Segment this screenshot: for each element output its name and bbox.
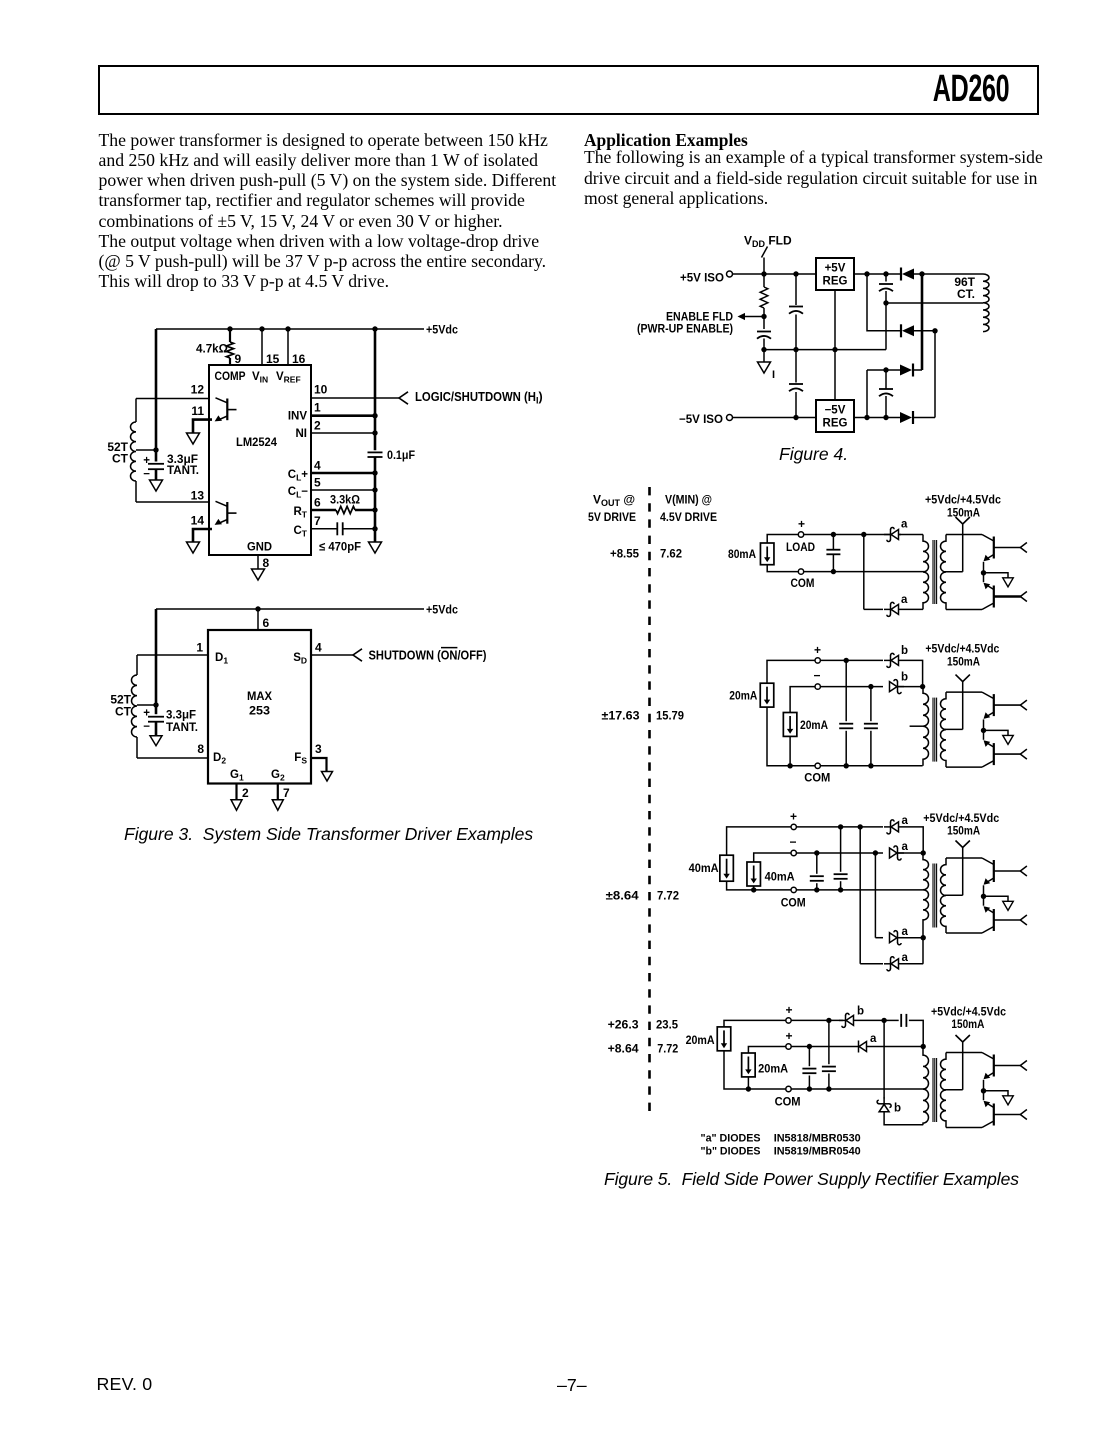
field connection arrow lower (circuit 5) (1020, 749, 1027, 759)
wire Q5a emitter to base node (983, 719, 985, 730)
diode D6 'a' (c1 lower) (884, 602, 899, 616)
ground at pin 8 (252, 569, 265, 580)
wire pin 5 CL- (311, 489, 375, 491)
wire center tap to C1 (155, 450, 158, 462)
wire T2 center tap (137, 704, 156, 706)
wire T1 primary top lead (135, 399, 137, 423)
junction c2 COM/source2 (787, 763, 792, 768)
diode D2 (rectifier) (901, 324, 914, 337)
svg-text:−5V ISO: −5V ISO (679, 412, 723, 426)
wire c4 row2 (791, 1046, 858, 1048)
svg-text:+5Vdc/+4.5Vdc: +5Vdc/+4.5Vdc (925, 493, 1001, 507)
ground at pin 11 (187, 433, 200, 444)
wire D10 to T6 top (898, 852, 924, 854)
transistor Q4a (upper sync rectifier) (982, 535, 1021, 562)
wire pin 2 G1 to ground (235, 784, 237, 800)
field connection arrow upper (circuit 5) (1020, 700, 1027, 710)
capacitor C17 (c4) (802, 1069, 816, 1074)
svg-text:7: 7 (314, 514, 321, 528)
wire C10 bottom lead (832, 554, 834, 571)
wire C13 branch (840, 827, 842, 872)
svg-text:CT: CT (112, 452, 129, 466)
ground at base node (circuit 5) (1003, 735, 1014, 744)
capacitor C10 (c1 filter) (826, 550, 840, 555)
junction c1 top/diode branch (861, 532, 866, 537)
junction rail/pin16 (285, 326, 290, 331)
svg-text:+5Vdc/+4.5Vdc: +5Vdc/+4.5Vdc (925, 642, 999, 656)
terminal COM (c2) (815, 763, 820, 768)
header part number AD260 (905, 68, 1037, 111)
wire D15 to bottom row (884, 1112, 923, 1125)
wire power arrow stem (circuit 7) (962, 1042, 964, 1090)
junction enable node (761, 314, 766, 319)
inductor T5 secondary winding (940, 692, 946, 767)
header rule box (98, 65, 1039, 115)
junction c2 COM/C11 (844, 763, 849, 768)
field connection arrow lower (circuit 7) (1020, 1110, 1027, 1120)
svg-text:LOAD: LOAD (786, 540, 815, 554)
junction c3 row2/C14 (814, 850, 819, 855)
field connection arrow upper (circuit 7) (1020, 1061, 1027, 1071)
wire c3 row4 (860, 963, 883, 965)
caption Figure 4 (779, 444, 848, 465)
svg-text:NI: NI (296, 428, 308, 440)
wire GND pin 8 (257, 555, 259, 569)
current source 40mA (c3 lower) (747, 862, 761, 886)
wire pin 1 INV to bypass node (311, 414, 375, 417)
svg-text:1: 1 (196, 641, 203, 655)
wire fig4 common rail (764, 349, 886, 351)
wire pin 6 RT left (311, 509, 336, 512)
wire pin 11 stub to ground (193, 420, 212, 433)
wire D5 to T4 primary (899, 534, 924, 536)
wire c2 source2 top to - terminal (790, 687, 815, 713)
svg-text:a: a (902, 926, 909, 938)
svg-text:253: 253 (249, 704, 270, 718)
wire D9 to corner (899, 827, 924, 853)
terminal + 8.64V (c4) (786, 1044, 791, 1049)
svg-text:CL−: CL− (288, 486, 309, 500)
svg-text:7.72: 7.72 (657, 1042, 678, 1056)
wire c3 source1 top to + terminal (727, 827, 791, 855)
wire T2 primary top lead (136, 655, 138, 675)
svg-text:+: + (143, 708, 150, 720)
junction c3 row2/branch (873, 850, 878, 855)
wire +5V ISO to +5V REG (733, 273, 817, 275)
svg-text:20mA: 20mA (686, 1033, 715, 1047)
transistor Q4b (lower sync rectifier) (982, 583, 1021, 610)
transistor Q5a (upper sync rectifier) (982, 692, 1021, 719)
wire x886 cap branch (885, 274, 887, 282)
wire C8 to center tap node (885, 291, 887, 303)
terminal +5V ISO (727, 271, 733, 277)
junction c1 top/C10 (831, 532, 836, 537)
wire c3 row3 (875, 937, 883, 939)
svg-text:150mA: 150mA (947, 506, 980, 520)
terminal -5V ISO (727, 415, 733, 421)
svg-text:b: b (857, 1005, 864, 1017)
svg-text:−5V: −5V (825, 405, 846, 417)
power arrow +5Vdc/+4.5Vdc output (circuit 7) (956, 1035, 970, 1042)
wire x922 thick vertical (921, 274, 924, 370)
svg-text:COM: COM (775, 1095, 801, 1109)
wire T1 primary bottom lead (135, 481, 137, 502)
junction pin4/vertical (372, 470, 377, 475)
svg-text:"a" DIODES: "a" DIODES (701, 1133, 761, 1145)
wire base node to ground stub (984, 730, 1009, 735)
capacitor C4 3.3uF tantalum (148, 717, 164, 722)
current source 40mA (c3 upper) (720, 855, 734, 881)
svg-text:I: I (772, 369, 775, 381)
wire base node to Q6b emitter (983, 896, 985, 905)
wire C14 branch (816, 853, 818, 874)
right column heading (584, 130, 748, 151)
ground at base node (circuit 6) (1003, 901, 1014, 910)
wire c4 COM row to T7 center tap (791, 1088, 925, 1090)
junction T2 center tap/C4 (153, 702, 158, 707)
wire c3 branch row2 to row3 (874, 853, 876, 938)
wire lower-left x867 vertical (866, 370, 868, 418)
junction x796/common (793, 347, 798, 352)
junction D2/x935 (932, 328, 937, 333)
capacitor C12 (c2) (864, 724, 878, 729)
diode D15 'b' (c4 doubler) (877, 1097, 891, 1112)
wire pin 2 NI to bypass node (311, 432, 375, 434)
wire C9 to -5V rail (885, 396, 887, 418)
svg-text:5: 5 (314, 476, 321, 490)
svg-text:9: 9 (235, 352, 242, 366)
wire D4 to x935 (914, 417, 935, 419)
diode D3 (rectifier, -5V) (900, 364, 913, 377)
wire c1 top row (804, 534, 902, 536)
wire pin 4 CL+ (311, 472, 375, 475)
transistor Q5b (lower sync rectifier) (982, 740, 1021, 767)
wire base node to Q4b emitter (983, 573, 985, 582)
wire T5 primary center tap stub (910, 725, 925, 727)
svg-text:−: − (790, 835, 797, 849)
footer page number (557, 1375, 587, 1396)
svg-text:CL+: CL+ (288, 469, 309, 483)
wire C11 to COM (845, 731, 847, 766)
wire pin 14 stub to ground (193, 529, 212, 542)
field connection arrow upper (circuit 6) (1020, 866, 1027, 876)
wire D8 to T5 primary top (898, 686, 923, 688)
wire T6 lead to row3/row4 (922, 927, 924, 964)
junction center tap/C1 (153, 447, 158, 452)
junction base node (circuit 4) (981, 570, 986, 575)
wire D7 to corner (899, 660, 923, 686)
svg-text:3.3kΩ: 3.3kΩ (330, 493, 360, 507)
wire pin 3 FS to ground (311, 758, 327, 772)
current source 20mA (c2 upper) (760, 683, 774, 707)
capacitor C7 (-5V ISO bypass) (789, 384, 803, 391)
svg-text:4: 4 (314, 459, 321, 473)
capacitor C1 3.3uF tantalum (148, 464, 164, 469)
wire c2 source1 bottom to COM (767, 707, 815, 766)
wire T7 secondary top to Q7a (946, 1052, 982, 1054)
wire pin 7 G2 to ground (277, 784, 279, 800)
signal arrow LOGIC/SHUTDOWN (399, 392, 408, 404)
diode D14 'a' (c4 row2) (859, 1041, 867, 1053)
transistor Q7a (upper sync rectifier) (982, 1053, 1021, 1080)
transistor Q6b (lower sync rectifier) (982, 906, 1021, 933)
signal arrow ENABLE FLD (738, 313, 746, 320)
junction VDD/+5V ISO rail (761, 271, 766, 276)
svg-text:G2: G2 (271, 769, 285, 783)
wire R2 to vertical (355, 509, 375, 512)
junction c3 row1/C13 (838, 824, 843, 829)
junction c4 doubler node (881, 1018, 886, 1023)
wire C16 to corner (909, 1020, 923, 1046)
wire c2 source2 bottom stub (789, 736, 791, 765)
capacitor C8 (+5V filter) (879, 284, 893, 291)
wire C15 branch (828, 1020, 830, 1064)
wire c4 source1 top to + terminal (724, 1020, 786, 1027)
wire common to U4 top (834, 350, 836, 400)
diode D12 'a' (c3 row4) (884, 957, 899, 971)
wire c3 row2 (796, 852, 883, 854)
wire C17 to COM (808, 1076, 810, 1090)
regulator U3 +5V REG (816, 258, 854, 290)
inductor T5 primary winding (923, 687, 929, 766)
wire c2 row2 (820, 686, 883, 688)
junction rail/bypass branch (372, 326, 377, 331)
wire base node to ground stub (984, 1091, 1009, 1096)
wire R1 to pin 9 (229, 358, 231, 365)
transistor Q1 (upper driver inside LM2524) (215, 398, 237, 422)
junction base node (circuit 7) (981, 1088, 986, 1093)
current source 20mA (c4 upper) (717, 1027, 731, 1051)
svg-text:5V DRIVE: 5V DRIVE (588, 510, 636, 524)
inductor T3 secondary winding 96T CT (983, 274, 989, 332)
inductor T7 secondary winding (941, 1053, 946, 1128)
svg-text:CT.: CT. (957, 287, 975, 301)
wire base node to Q7b emitter (983, 1091, 985, 1100)
wire rail to pin 16 (287, 329, 289, 365)
wire rail to pin 15 (261, 329, 263, 365)
svg-text:a: a (870, 1033, 877, 1045)
wire Q7a emitter to base node (983, 1080, 985, 1091)
diode D9 'a' (c3 row1) (884, 820, 899, 834)
wire C15 to COM (828, 1074, 830, 1090)
svg-text:150mA: 150mA (947, 655, 980, 669)
wire C13 to COM (840, 881, 842, 890)
svg-text:4.7kΩ: 4.7kΩ (196, 342, 228, 356)
wire D13 to doubler node (854, 1019, 885, 1021)
wire base node to ground stub (984, 896, 1009, 901)
svg-text:0.1μF: 0.1μF (387, 448, 415, 462)
svg-text:FS: FS (294, 752, 307, 766)
svg-text:+: + (786, 1003, 793, 1017)
wire c1 COM row to center tap (804, 571, 926, 573)
wire +5Vdc supply rail (MAX253) (156, 608, 424, 610)
svg-text:+: + (814, 643, 821, 657)
ground below C4 (150, 736, 162, 746)
junction x886/D3 row (883, 367, 888, 372)
svg-text:11: 11 (191, 404, 204, 418)
wire c4 source2 bottom stub (747, 1077, 749, 1089)
wire T4 secondary center tap (944, 571, 963, 573)
wire c3 row1 (796, 826, 883, 828)
field connection arrow lower (circuit 6) (1020, 915, 1027, 925)
wire R3 to enable node (763, 308, 765, 329)
ground at pin G2 (272, 800, 283, 811)
junction c4 row2/C17 (807, 1044, 812, 1049)
diode D8 'b' (c2 row2) (890, 680, 905, 694)
svg-text:20mA: 20mA (758, 1062, 788, 1076)
wire D11 to T6 vertical (898, 937, 924, 939)
wire x886 lower cap branch (885, 370, 887, 389)
diode D4 (rectifier) (900, 411, 913, 424)
current source 20mA (c2 lower) (783, 713, 797, 737)
IC U1 LM2524 body (209, 365, 311, 555)
wire T6 secondary top to Q6a (946, 857, 982, 859)
current source 20mA (c4 lower) (742, 1053, 756, 1077)
wire c3 source2 bottom stub (753, 886, 755, 890)
junction c4 COM/C17 (807, 1086, 812, 1091)
svg-text:+: + (143, 455, 150, 467)
capacitor C9 (-5V filter) (879, 389, 893, 396)
terminal + (c2) (815, 658, 820, 663)
junction c3 row1/branch (858, 824, 863, 829)
capacitor C15 (c4) (822, 1067, 836, 1072)
wire pin 10 LOGIC/SHUTDOWN (311, 397, 399, 399)
wire base node to Q5b emitter (983, 730, 985, 739)
ground at bypass vertical bottom (369, 542, 382, 553)
signal arrow SHUTDOWN (353, 649, 362, 661)
svg-text:b: b (901, 645, 908, 657)
power arrow +5Vdc/+4.5Vdc output (circuit 4) (956, 517, 970, 524)
wire T7 secondary bottom to Q7b (946, 1127, 982, 1129)
wire -5V ISO to -5V REG (733, 417, 817, 419)
junction pin1/vertical (372, 413, 377, 418)
svg-text:COM: COM (781, 896, 806, 910)
diode D10 'a' (c3 row2) (890, 846, 905, 860)
svg-text:a: a (902, 952, 909, 964)
wire center tap to common (885, 303, 887, 350)
wire rail down to center tap (155, 329, 158, 450)
junction x886/-5V rail (883, 415, 888, 420)
svg-text:+5Vdc: +5Vdc (426, 603, 458, 617)
wire c1 source bottom to COM (767, 565, 798, 572)
svg-text:MAX: MAX (247, 689, 272, 703)
capacitor C16 (doubler series) (901, 1014, 906, 1027)
capacitor C11 (c2) (839, 724, 853, 729)
svg-text:20mA: 20mA (729, 689, 757, 703)
svg-text:3: 3 (315, 742, 322, 756)
wire U3 ground lead (834, 290, 836, 350)
wire pin 4 SD SHUTDOWN (311, 654, 353, 656)
wire T4 secondary bottom to Q4b (946, 609, 982, 611)
wire rail down to T2 center tap (155, 609, 158, 705)
capacitor C14 (c3) (810, 876, 824, 881)
svg-text:13: 13 (191, 489, 205, 503)
junction x922/+5V out (919, 271, 924, 276)
ground at pin G1 (231, 800, 242, 811)
caption Figure 5 (604, 1169, 1019, 1190)
svg-text:LM2524: LM2524 (236, 435, 277, 449)
inductor T7 primary winding (923, 1047, 929, 1125)
terminal - (c3) (791, 850, 796, 855)
transformer T7 core (933, 1058, 937, 1122)
field connection arrow lower (circuit 4) (1020, 592, 1027, 602)
power arrow +5Vdc/+4.5Vdc output (circuit 6) (956, 841, 970, 848)
svg-text:COMP: COMP (215, 371, 246, 383)
left column body text (99, 130, 557, 292)
wire C17 branch (808, 1047, 810, 1067)
wire power arrow stem (circuit 6) (962, 848, 964, 896)
svg-text:VIN: VIN (252, 371, 268, 385)
wire center tap to C4 (155, 705, 158, 714)
junction pin6/vertical (372, 507, 377, 512)
transistor Q2 (lower driver inside LM2524) (215, 501, 237, 525)
svg-text:GND: GND (247, 540, 272, 554)
wire T5 secondary bottom to Q5b (946, 766, 982, 768)
capacitor C6 (+5V ISO bypass) (789, 307, 803, 314)
svg-text:VREF: VREF (276, 371, 301, 385)
junction center tap node (883, 300, 888, 305)
resistor R1 4.7k-ohm (226, 342, 233, 358)
wire pin 12 to transformer T1 primary top (136, 398, 209, 400)
svg-text:CT: CT (293, 525, 307, 539)
svg-text:TANT.: TANT. (166, 720, 198, 734)
svg-text:7.62: 7.62 (660, 547, 682, 561)
svg-text:1: 1 (314, 401, 321, 415)
wire c3 COM row to T6 center tap (796, 889, 925, 891)
overline over ON (441, 647, 457, 649)
wire T1 center tap (136, 449, 156, 451)
wire x935 vertical (934, 331, 936, 418)
caption Figure 3 (124, 824, 533, 845)
svg-text:−: − (143, 468, 150, 480)
svg-text:+5V: +5V (825, 263, 846, 275)
wire c3 source1 bottom to COM (727, 881, 791, 890)
junction rail/R1 (227, 326, 232, 331)
junction base node (circuit 5) (981, 728, 986, 733)
svg-text:TANT.: TANT. (167, 463, 199, 477)
svg-text:12: 12 (191, 383, 205, 397)
svg-text:23.5: 23.5 (656, 1018, 678, 1032)
wire T5 secondary top to Q5a (946, 691, 982, 693)
wire c2 source1 top to + terminal (767, 660, 815, 683)
svg-text:+: + (786, 1029, 793, 1043)
transistor Q6a (upper sync rectifier) (982, 858, 1021, 885)
inductor T1 primary winding 52T CT (131, 422, 137, 481)
junction c4 COM/source2 (746, 1086, 751, 1091)
svg-text:15.79: 15.79 (656, 709, 684, 723)
wire c3 branch row1 to row4 (859, 827, 861, 964)
ground at base node (circuit 4) (1003, 578, 1014, 587)
junction c2 row1/C11 (844, 658, 849, 663)
wire C4 to ground (155, 722, 158, 736)
current source 80mA (760, 543, 774, 565)
wire D2 to x935 (914, 330, 935, 332)
wire T4 secondary top to Q4a (946, 534, 982, 536)
wire T6 secondary center tap (944, 894, 963, 896)
wire c4 source1 bottom to COM (724, 1051, 786, 1089)
wire VDD branch vertical top (763, 258, 765, 288)
diode D11 'a' (c3 row3) (890, 931, 905, 945)
diode D1 (rectifier, +5V) (901, 268, 914, 281)
wire U3 output to diode D1a (854, 273, 901, 275)
wire power arrow stem (circuit 5) (962, 682, 964, 730)
svg-text:a: a (901, 594, 908, 606)
wire T2 primary bottom lead (136, 737, 138, 758)
wire c3 source2 top to - terminal (754, 853, 791, 862)
junction c4 T7 top (921, 1044, 926, 1049)
wire doubler node to C16 (884, 1019, 899, 1021)
wire C6 to common rail (795, 315, 797, 383)
